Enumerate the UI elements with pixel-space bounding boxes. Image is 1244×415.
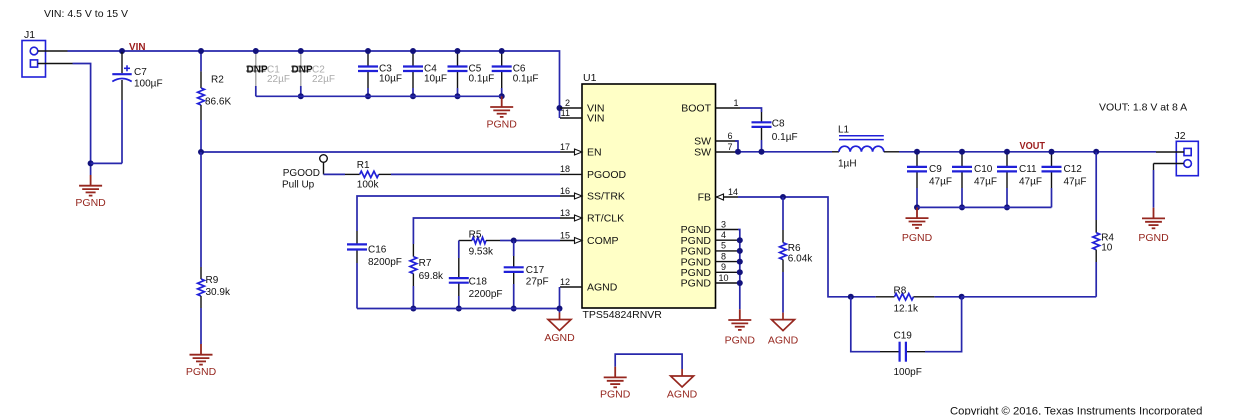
capacitor C17 27pF [504,241,549,309]
junction VOUT/R4 [1093,149,1099,155]
svg-text:VOUT: 1.8 V at 8 A: VOUT: 1.8 V at 8 A [1099,102,1187,114]
svg-text:C9: C9 [929,164,942,175]
wire input cap ground rail [256,95,502,97]
junction C9 bottom [914,204,920,210]
svg-text:C12: C12 [1064,164,1083,175]
svg-text:VIN: VIN [129,41,146,53]
wire output cap ground rail [917,206,1052,208]
svg-text:9: 9 [721,262,726,272]
svg-text:U1: U1 [583,72,597,84]
junction C5 bottom [455,93,461,99]
U1 FB arrow [717,194,724,200]
wire VOUT rail [899,151,1156,153]
svg-text:PGND: PGND [725,334,756,346]
svg-text:100µF: 100µF [134,79,163,90]
svg-text:L1: L1 [838,125,850,136]
svg-text:6.04k: 6.04k [788,254,813,265]
junction C4 bottom [410,93,416,99]
junction C6 top [499,48,505,54]
svg-text:1: 1 [733,98,738,108]
svg-text:10: 10 [718,273,728,283]
junction R8 left [848,294,854,300]
svg-text:27pF: 27pF [526,277,549,288]
svg-text:6: 6 [727,131,732,141]
junction PGND pin8 [737,259,743,265]
capacitor C4 10µF [403,52,447,96]
junction C2 top [298,48,304,54]
ground AGND at U1 [559,309,561,313]
junction R8 right [959,294,965,300]
junction PGND pin10 [737,280,743,286]
wire SS/TRK net [357,196,560,231]
svg-text:2: 2 [565,98,570,108]
svg-text:EN: EN [587,147,602,159]
wire COMP net [514,240,560,242]
svg-text:47µF: 47µF [929,176,952,187]
capacitor C1 DNP 22uF [246,51,290,96]
resistor R8 12.1k [851,286,962,315]
svg-text:11: 11 [561,108,570,118]
junction C3 bottom [365,93,371,99]
svg-text:SS/TRK: SS/TRK [587,191,625,203]
wire BOOT net [740,108,762,112]
svg-text:C19: C19 [894,331,913,342]
junction PGND pin4 [737,237,743,243]
svg-text:BOOT: BOOT [681,103,711,115]
junction AGND rail [557,306,563,312]
svg-text:1µH: 1µH [838,159,857,170]
wire SW rail [735,151,832,153]
svg-text:PGND: PGND [487,118,518,130]
svg-text:C17: C17 [526,265,545,276]
wire J1 pin2 to ground rail [73,64,91,176]
junction C4 top [410,48,416,54]
svg-text:3: 3 [721,219,726,229]
svg-text:R8: R8 [894,286,907,297]
wire PGND-AGND net tie [615,354,682,369]
capacitor C6 0.1µF [492,52,539,96]
ground PGND at U1 [728,309,751,330]
junction C3 top [365,48,371,54]
U1 left pin stubs [560,108,582,287]
wire FB net [738,197,851,297]
svg-text:R1: R1 [357,160,370,171]
capacitor C12 47uF [1042,153,1087,208]
svg-text:86.6K: 86.6K [205,97,231,108]
svg-text:15: 15 [560,230,570,240]
svg-text:Copyright © 2016, Texas Instru: Copyright © 2016, Texas Instruments Inco… [950,406,1202,415]
junction VIN/C7 [119,48,125,54]
svg-text:C10: C10 [974,164,993,175]
svg-text:17: 17 [560,142,570,152]
junction R7 bottom [410,306,416,312]
wire AGND pin net [559,287,561,309]
svg-text:2200pF: 2200pF [469,289,503,300]
junction SW pin7 [735,149,741,155]
svg-text:C16: C16 [368,245,387,256]
svg-text:100pF: 100pF [894,367,922,378]
svg-text:10µF: 10µF [424,74,447,85]
svg-text:Pull Up: Pull Up [282,180,315,191]
junction EN divider [198,149,204,155]
U1 pin names [587,103,712,294]
svg-text:RT/CLK: RT/CLK [587,213,624,225]
svg-text:10µF: 10µF [379,74,402,85]
svg-text:47µF: 47µF [1019,176,1042,187]
svg-text:18: 18 [560,164,570,174]
svg-text:PGND: PGND [75,197,106,209]
capacitor C10 47uF [952,153,997,208]
svg-text:PGND: PGND [902,232,933,244]
svg-text:PGND: PGND [1138,232,1169,244]
svg-text:C11: C11 [1019,164,1037,175]
svg-text:R7: R7 [419,258,432,269]
wire EN net [201,151,560,153]
svg-text:69.8k: 69.8k [419,271,444,282]
junction C5 top [455,48,461,54]
svg-text:AGND: AGND [667,389,698,401]
junction C17 bottom [511,306,517,312]
svg-text:5: 5 [721,241,726,251]
wire VIN top rail [68,51,560,118]
svg-text:J2: J2 [1175,130,1186,142]
svg-text:R5: R5 [469,230,482,241]
ground PGND at output caps [906,207,929,228]
wire U1 PGND chain [738,230,740,310]
resistor R1 100k [345,160,391,191]
U1 right pin stubs [716,108,741,283]
svg-text:PGOOD: PGOOD [587,169,627,181]
resistor R4 10 [1093,152,1115,297]
junction C1 top [253,48,259,54]
svg-text:12: 12 [560,277,570,287]
ground PGND at R9 [190,344,213,365]
inductor L1 1uH [832,125,899,170]
junction C2 bottom [298,93,304,99]
svg-text:47µF: 47µF [1064,176,1087,187]
capacitor C2 DNP 22uF [291,51,335,96]
svg-text:AGND: AGND [768,335,799,347]
junction R2 top [198,48,204,54]
svg-text:TPS54824RNVR: TPS54824RNVR [583,309,663,321]
junction C11 bottom [1004,204,1010,210]
svg-text:VIN: VIN [587,113,605,125]
svg-text:0.1µF: 0.1µF [772,132,798,143]
capacitor C5 0.1µF [448,52,495,96]
junction C10 top [959,149,965,155]
svg-text:R6: R6 [788,243,801,254]
junction PGND pin9 [737,269,743,275]
svg-text:22µF: 22µF [267,74,290,85]
capacitor C9 47uF [907,153,952,208]
ground AGND at R6 [772,313,795,331]
svg-text:R9: R9 [206,275,219,286]
svg-text:J1: J1 [24,29,35,41]
junction C12 top [1049,149,1055,155]
connector J2 [1154,130,1199,176]
ground PGND at J2 [1142,208,1165,229]
ground PGND at input caps [490,96,513,117]
capacitor C16 8200pF [347,231,402,309]
wire J2 ground [1153,164,1155,171]
svg-text:R2: R2 [211,75,224,86]
svg-text:0.1µF: 0.1µF [469,74,495,85]
junction C11 top [1004,149,1010,155]
svg-text:47µF: 47µF [974,176,997,187]
svg-text:C8: C8 [772,119,785,130]
svg-text:C7: C7 [134,67,147,78]
svg-text:SW: SW [694,147,711,159]
svg-text:C18: C18 [469,277,488,288]
IC U1 TPS54824RNVR [582,72,716,321]
svg-text:22µF: 22µF [312,74,335,85]
junction J1 ground [88,160,94,166]
svg-text:7: 7 [727,142,732,152]
svg-text:30.9k: 30.9k [206,287,231,298]
U1 input arrows EN SS/TRK RT/CLK COMP [575,149,583,155]
junction C10 bottom [959,204,965,210]
svg-text:PGOOD: PGOOD [283,168,320,179]
capacitor C18 2200pF [449,241,503,309]
wire R8 to R4 [962,296,1097,298]
ground PGND at J1 [79,175,102,196]
svg-text:DNP: DNP [292,64,313,75]
svg-text:14: 14 [728,187,738,197]
svg-text:PGND: PGND [186,366,217,378]
junction C6 bottom [499,93,505,99]
svg-text:10: 10 [1101,242,1113,253]
resistor R7 69.8k [410,244,444,309]
resistor R6 6.04k [780,197,814,313]
svg-text:VOUT: VOUT [1020,140,1046,152]
junction SW/C8 [759,149,765,155]
svg-text:16: 16 [560,186,570,196]
resistor R5 9.53k [459,230,500,258]
capacitor C8 0.1uF [752,112,798,152]
svg-text:100k: 100k [357,180,380,191]
wire SW pin6 down [735,141,738,152]
junction C18 bottom [456,306,462,312]
resistor R2 86.6K [198,51,232,152]
junction COMP/C17 [511,238,517,244]
svg-text:13: 13 [560,208,570,218]
wire PGOOD net left [324,173,346,175]
svg-text:8200pF: 8200pF [368,257,402,268]
capacitor C3 10µF [358,52,402,96]
svg-text:9.53k: 9.53k [469,247,494,258]
U1 pin numbers [560,98,739,287]
junction C9 top [914,149,920,155]
junction PGND pin5 [737,248,743,254]
svg-text:12.1k: 12.1k [894,304,919,315]
capacitor C7 100uF polarized [91,52,163,163]
capacitor C19 100pF [851,297,962,378]
wire PGOOD net right [391,173,560,175]
svg-text:4: 4 [721,230,726,240]
svg-text:PGND: PGND [600,389,631,401]
junction VIN at U1 pins [557,105,563,111]
svg-text:FB: FB [698,192,711,204]
svg-text:AGND: AGND [544,332,575,344]
svg-text:PGND: PGND [681,278,712,290]
connector J1 [22,29,73,77]
svg-text:8: 8 [721,251,726,261]
wire AGND rail [357,308,560,310]
wire RT/CLK net [413,218,560,244]
ground AGND net-tie [671,369,694,387]
junction FB/R6 [780,194,786,200]
svg-text:COMP: COMP [587,235,619,247]
ground PGND net-tie [604,367,627,388]
capacitor C11 47uF [997,153,1042,208]
svg-text:AGND: AGND [587,282,618,294]
svg-text:0.1µF: 0.1µF [513,74,539,85]
svg-text:DNP: DNP [247,64,268,75]
resistor R9 30.9k [198,152,231,344]
terminal PGOOD pull-up [282,155,327,191]
svg-text:VIN: 4.5 V to 15 V: VIN: 4.5 V to 15 V [44,8,128,20]
